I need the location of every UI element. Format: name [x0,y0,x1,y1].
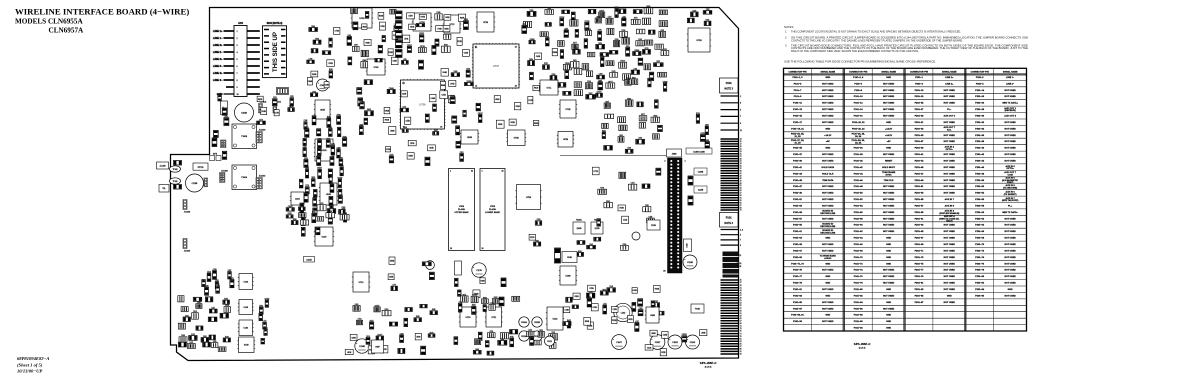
IC U102 [238,274,254,290]
svg-text:R608: R608 [647,6,651,8]
svg-text:P201−2: P201−2 [976,77,984,79]
svg-text:35: 35 [740,280,742,282]
svg-text:P101−1, 3: P101−1, 3 [792,77,803,79]
svg-text:21: 21 [740,149,742,151]
svg-text:P201−34: P201−34 [975,127,985,130]
svg-text:RIGHT OF THE COMPONENT SIDE VI: RIGHT OF THE COMPONENT SIDE VIEW, SHOWS … [791,49,919,53]
svg-text:+5V: +5V [887,141,891,143]
svg-text:10/13/00−UP: 10/13/00−UP [17,369,42,374]
svg-text:R381: R381 [578,251,582,253]
svg-text:GND: GND [825,276,830,278]
svg-text:P201−28: P201−28 [975,109,985,111]
svg-text:R622: R622 [385,309,389,311]
label C110B2 [694,186,707,193]
svg-text:CR157: CR157 [478,113,483,115]
svg-text:P101−84: P101−84 [854,301,864,304]
svg-text:JU1008: JU1008 [184,212,190,214]
svg-text:32: 32 [502,171,504,173]
svg-text:NOT USED: NOT USED [944,263,956,265]
svg-text:P201−73: P201−73 [915,257,925,259]
svg-text:R150: R150 [696,113,700,115]
svg-text:NOT USED: NOT USED [1004,283,1016,285]
svg-text:61: 61 [740,198,742,200]
svg-text:R854: R854 [529,59,533,61]
svg-text:2.: 2. [785,35,787,39]
svg-text:NOT USED: NOT USED [1004,250,1016,252]
svg-text:P201−49: P201−49 [915,179,925,182]
svg-text:83: 83 [740,341,742,343]
svg-text:C831: C831 [573,60,577,62]
svg-text:C881: C881 [203,336,207,338]
svg-text:C146: C146 [403,127,407,129]
svg-text:P201−29: P201−29 [915,116,925,118]
svg-text:P101−35: P101−35 [793,148,803,150]
svg-text:R153: R153 [600,56,604,58]
svg-text:OPTO−: OPTO− [946,149,954,151]
svg-text:BKTB: BKTB [213,154,217,156]
svg-text:10: 10 [237,94,239,96]
svg-text:T100A: T100A [241,176,248,179]
svg-text:C660: C660 [359,124,363,126]
svg-text:R459: R459 [367,109,371,111]
svg-text:CR777: CR777 [608,81,613,83]
svg-text:43: 43 [740,175,742,177]
svg-text:9: 9 [237,87,238,89]
svg-text:P201−84: P201−84 [975,288,985,291]
svg-text:PTC3: PTC3 [198,167,204,169]
svg-text:GEN TX DATA−: GEN TX DATA− [1002,211,1018,214]
svg-text:P101−22, 24: P101−22, 24 [852,127,865,130]
svg-text:U101: U101 [321,150,327,152]
svg-text:V10B: V10B [244,345,249,347]
svg-text:59: 59 [740,310,742,312]
svg-text:32, 34: 32, 34 [855,141,862,144]
svg-text:C920: C920 [537,219,541,221]
svg-text:CR160: CR160 [620,61,625,63]
svg-text:U71B: U71B [565,109,571,111]
svg-text:NOT USED: NOT USED [822,206,834,208]
svg-text:C153: C153 [191,334,195,336]
svg-text:P101−75: P101−75 [793,270,803,272]
svg-text:CR795: CR795 [584,21,589,23]
transistor Q40B [573,219,585,235]
svg-text:R562: R562 [216,284,220,286]
svg-text:L147: L147 [635,321,639,323]
svg-text:Q101: Q101 [295,198,300,200]
svg-text:U10B: U10B [467,137,473,139]
svg-text:P101−90: P101−90 [854,321,864,323]
svg-text:NOT USED: NOT USED [944,270,956,272]
svg-text:R610: R610 [598,43,602,45]
svg-text:57: 57 [740,193,742,195]
svg-text:NOT USED: NOT USED [822,193,834,195]
svg-text:P201−48: P201−48 [975,172,985,175]
svg-text:U702: U702 [359,18,365,20]
svg-text:P101−88: P101−88 [854,315,864,317]
svg-text:C896: C896 [181,335,185,337]
svg-text:U71B: U71B [696,40,702,42]
svg-text:LINE 4−: LINE 4− [213,78,223,82]
jumper AUX101 [259,101,267,113]
svg-text:45: 45 [740,178,742,180]
edge connector P201 pins lower [721,139,742,212]
svg-text:27: 27 [740,156,742,158]
svg-text:L993: L993 [348,35,352,37]
svg-text:R279: R279 [289,106,293,108]
svg-text:9: 9 [740,123,741,125]
svg-text:SIGNAL NAME: SIGNAL NAME [942,70,957,73]
svg-text:NOT USED: NOT USED [944,135,956,137]
svg-text:R680: R680 [596,16,600,18]
svg-text:X10B: X10B [567,257,572,259]
edge connector P201 pins upper [721,96,742,132]
svg-text:JU1002: JU1002 [259,176,266,178]
jumper JU1009 [183,239,190,253]
svg-text:C580: C580 [205,286,209,288]
IC U72B [557,132,574,148]
capacitor C1108 [355,339,369,353]
svg-text:C110B: C110B [359,346,365,348]
svg-text:65: 65 [740,318,742,320]
svg-text:R756: R756 [510,337,514,339]
svg-text:+14.2V: +14.2V [824,134,832,137]
resistor cluster top-right rows [558,6,669,99]
svg-text:L326: L326 [312,212,316,214]
svg-text:NOTES:: NOTES: [784,25,794,29]
svg-text:GND: GND [825,148,830,150]
svg-text:C667: C667 [564,28,568,30]
svg-text:P101−78: P101−78 [854,283,864,285]
svg-text:CR525: CR525 [338,195,343,197]
resistor cluster mid-left [212,95,229,160]
svg-text:47: 47 [740,295,742,297]
svg-text:P201−85: P201−85 [915,295,925,297]
svg-text:NOT USED: NOT USED [1004,276,1016,278]
svg-text:CR507: CR507 [317,168,322,170]
svg-text:U704: U704 [459,206,465,208]
IC U10C [314,227,334,246]
resistor cluster pre-topright [522,8,554,46]
svg-text:P201−38: P201−38 [975,141,985,143]
svg-text:P101−45: P101−45 [793,179,803,182]
svg-text:79: 79 [740,336,742,338]
svg-text:GND: GND [1008,289,1013,291]
svg-text:C492: C492 [639,308,643,310]
svg-text:LINE 1+: LINE 1+ [213,29,223,33]
board caption sheet 1 [700,363,717,369]
svg-text:C323: C323 [264,327,268,329]
transistor Q101 [290,192,305,205]
svg-text:AUX IN 7: AUX IN 7 [945,198,955,201]
svg-text:COM: COM [1008,175,1013,177]
svg-text:29: 29 [740,158,742,160]
svg-text:NOT USED: NOT USED [944,96,956,98]
svg-text:P101−55: P101−55 [793,212,803,214]
IC U122 [546,307,564,330]
svg-text:1, 3: 1, 3 [740,229,743,231]
svg-text:CR484: CR484 [530,39,535,41]
svg-text:DECODE LINE: DECODE LINE [820,226,835,228]
svg-text:91: 91 [740,351,742,353]
svg-text:C612: C612 [547,341,552,343]
svg-text:23, 25,: 23, 25, [737,263,743,265]
svg-text:R165: R165 [329,69,333,71]
jumper AUX102 [273,101,281,113]
svg-text:P201−35: P201−35 [915,135,925,137]
svg-text:C841: C841 [197,302,201,304]
svg-text:TDM CLK: TDM CLK [884,180,894,182]
svg-text:P101−48: P101−48 [854,185,864,188]
svg-text:GND: GND [886,244,891,246]
svg-text:NOT USED: NOT USED [1004,218,1016,220]
svg-text:R456: R456 [432,309,436,311]
svg-text:SJPS−16897−O: SJPS−16897−O [854,344,871,346]
resistor cluster under-flash [455,278,507,298]
svg-text:59: 59 [740,195,742,197]
svg-text:R887: R887 [598,80,602,82]
svg-text:P101−69: P101−69 [793,257,803,259]
svg-text:C610B: C610B [534,322,541,324]
table caption sheet 2 [854,344,871,350]
svg-text:C963: C963 [705,125,709,127]
svg-text:GND: GND [886,263,891,265]
svg-text:63: 63 [740,200,742,202]
capacitor cluster bottom-row [345,332,458,354]
edge connector label P201 [720,78,739,93]
svg-text:R281: R281 [706,20,710,22]
svg-text:NOT USED: NOT USED [1004,238,1016,240]
IC U10B top [460,130,479,144]
svg-text:LINE 2+: LINE 2+ [213,43,223,47]
svg-text:P101−67: P101−67 [793,250,803,252]
edge connector P101 pins lower [721,280,742,356]
svg-text:9: 9 [740,245,741,247]
svg-text:NOT USED: NOT USED [944,180,956,182]
svg-text:NOT USED: NOT USED [883,109,895,111]
inductor L102 [614,303,632,321]
svg-text:C530: C530 [552,74,556,76]
svg-text:63: 63 [740,315,742,317]
svg-text:P101−60: P101−60 [854,225,864,227]
svg-text:R548: R548 [327,116,331,118]
jumper pins left [204,178,208,187]
svg-text:NOT USED: NOT USED [883,116,895,118]
svg-text:P201−32: P201−32 [975,122,985,124]
capacitor C1047 [612,335,627,350]
svg-text:U103: U103 [244,307,249,309]
IC U70B [506,130,526,146]
svg-text:C701: C701 [305,185,309,187]
svg-text:CLN6957A: CLN6957A [49,26,85,34]
IC U702 [351,8,373,28]
svg-text:R630: R630 [318,138,322,140]
svg-text:GEN TX DATA+: GEN TX DATA+ [1002,102,1018,105]
svg-text:CONNECTOR−PIN: CONNECTOR−PIN [849,71,868,73]
svg-text:P201−78: P201−78 [975,270,985,272]
svg-text:C261: C261 [273,97,277,99]
svg-text:23: 23 [440,127,442,129]
svg-text:NOT USED: NOT USED [883,193,895,195]
svg-text:NOT USED: NOT USED [1004,244,1016,246]
svg-text:P101−77: P101−77 [793,276,803,278]
test point TP10B [170,178,181,184]
svg-text:R421: R421 [626,46,630,48]
svg-text:P201−79: P201−79 [915,276,925,278]
svg-text:NOT USED: NOT USED [883,90,895,92]
svg-text:NOT USED: NOT USED [822,321,834,323]
svg-text:P201−72: P201−72 [975,250,985,252]
svg-text:P101−6: P101−6 [854,83,862,85]
svg-text:P101−71, 73: P101−71, 73 [791,263,804,265]
svg-text:CR859: CR859 [466,81,471,83]
svg-text:P201−69: P201−69 [915,244,925,246]
svg-text:C154: C154 [631,183,635,185]
svg-text:12: 12 [475,86,477,88]
component PTC3 [193,163,208,170]
svg-text:R551: R551 [434,130,438,132]
svg-text:OPTO+: OPTO+ [1006,168,1014,170]
wire bus line [560,155,666,157]
connector J200 [234,23,260,97]
svg-text:P201−13: P201−13 [915,90,925,92]
svg-text:C1143: C1143 [690,342,695,344]
svg-text:P101−40: P101−40 [854,160,864,163]
svg-text:C1170: C1170 [476,270,481,272]
svg-text:P101−8: P101−8 [854,90,862,92]
svg-text:P101−54: P101−54 [854,205,864,208]
svg-text:R864: R864 [340,166,344,168]
svg-text:R786: R786 [437,12,441,14]
svg-text:5: 5 [740,235,741,237]
IC U104 left [238,320,254,336]
svg-text:SIGNAL NAME: SIGNAL NAME [881,70,896,73]
svg-text:CR697: CR697 [407,45,412,47]
svg-text:R762: R762 [259,305,263,307]
svg-text:CR787: CR787 [597,92,602,94]
svg-text:17: 17 [740,144,742,146]
svg-text:15: 15 [740,141,742,143]
svg-text:L233: L233 [528,330,532,332]
resistor cluster center column [299,114,347,236]
svg-text:NOT USED: NOT USED [1004,257,1016,259]
svg-text:39: 39 [740,171,742,173]
svg-text:P101−89, 91: P101−89, 91 [791,315,804,317]
svg-text:25: 25 [740,153,742,155]
svg-text:35: 35 [740,166,742,168]
svg-text:C940: C940 [454,71,458,73]
svg-text:TP10B: TP10B [173,169,178,171]
capacitor C610A [519,317,529,327]
svg-text:J200: J200 [238,23,244,25]
svg-text:(Sheet 1 of 5): (Sheet 1 of 5) [17,362,43,367]
svg-text:R785: R785 [522,24,526,26]
svg-text:R402: R402 [475,349,479,351]
svg-text:NOT USED: NOT USED [822,250,834,252]
svg-text:C109: C109 [400,333,404,335]
svg-text:L439: L439 [339,158,343,160]
svg-text:P201−3: P201−3 [915,83,923,85]
svg-text:P201−76: P201−76 [975,263,985,265]
svg-text:33: 33 [740,163,742,165]
wire harness lines to J200 [213,29,234,96]
svg-text:GND: GND [886,148,891,150]
svg-text:R787: R787 [544,63,548,65]
IC U101 [314,139,334,161]
IC V10B [237,337,255,353]
svg-text:P101−70: P101−70 [854,257,864,259]
svg-text:R508: R508 [293,219,297,221]
svg-text:P201−71: P201−71 [915,250,925,252]
svg-text:P201−63: P201−63 [915,225,925,227]
svg-text:7: 7 [237,73,238,75]
svg-text:P101−44: P101−44 [854,172,864,175]
svg-text:P101−81: P101−81 [793,289,803,291]
svg-text:P201−54: P201−54 [975,192,985,195]
svg-text:3: 3 [740,103,741,105]
svg-text:CR449: CR449 [389,88,394,90]
svg-text:P101−72: P101−72 [854,263,864,265]
svg-text:P201−74: P201−74 [975,256,985,259]
svg-text:CR536: CR536 [559,17,564,19]
svg-text:L220: L220 [622,16,626,18]
svg-text:K10B: K10B [566,275,572,277]
svg-text:GND: GND [886,289,891,291]
svg-text:P201−43: P201−43 [915,160,925,163]
svg-text:NOT USED: NOT USED [944,231,956,233]
svg-text:C146: C146 [587,81,591,83]
svg-text:P201−58: P201−58 [975,206,985,208]
svg-text:L582: L582 [634,69,638,71]
svg-text:C114: C114 [589,292,593,294]
svg-text:1: 1 [475,47,476,49]
svg-text:+14.2V: +14.2V [885,134,893,137]
svg-text:NOT USED: NOT USED [1004,263,1016,265]
svg-text:P101−15: P101−15 [793,116,803,118]
svg-text:C748: C748 [489,331,493,333]
svg-text:30, 36: 30, 36 [855,136,862,138]
svg-text:1: 1 [403,83,404,85]
svg-text:P101−80: P101−80 [854,289,864,291]
svg-text:P201−80: P201−80 [975,276,985,278]
connector J208 black dual row [663,158,686,273]
svg-text:C819: C819 [627,148,631,150]
svg-text:R348: R348 [627,98,631,100]
svg-text:L818: L818 [403,107,407,109]
svg-text:THIS COMPONENT LOCATION DETAIL: THIS COMPONENT LOCATION DETAIL IS NOT DR… [791,30,961,34]
svg-text:P101−74: P101−74 [854,269,864,272]
svg-text:C619: C619 [193,311,197,313]
resistor cluster u706-right [450,95,466,161]
cross reference table [784,68,1027,331]
svg-text:C722: C722 [263,321,267,323]
svg-text:DECODE LINE: DECODE LINE [820,213,835,215]
svg-text:NOT USED: NOT USED [1004,128,1016,130]
svg-text:3.: 3. [785,43,787,47]
capacitor cluster bottom-right area [473,330,557,356]
svg-text:13: 13 [740,139,742,141]
svg-text:C851: C851 [460,152,464,154]
svg-text:R339: R339 [317,155,321,157]
svg-text:P201−44: P201−44 [975,160,985,163]
svg-text:NOT USED: NOT USED [944,250,956,252]
svg-text:R589: R589 [500,339,504,341]
svg-text:C130B: C130B [698,172,704,174]
svg-text:R407: R407 [605,101,609,103]
svg-text:C114B: C114B [687,262,693,264]
capacitor cluster near-edge [696,113,709,148]
svg-text:P201−4: P201−4 [976,82,984,85]
svg-text:THIS SIDE UP: THIS SIDE UP [272,32,279,72]
